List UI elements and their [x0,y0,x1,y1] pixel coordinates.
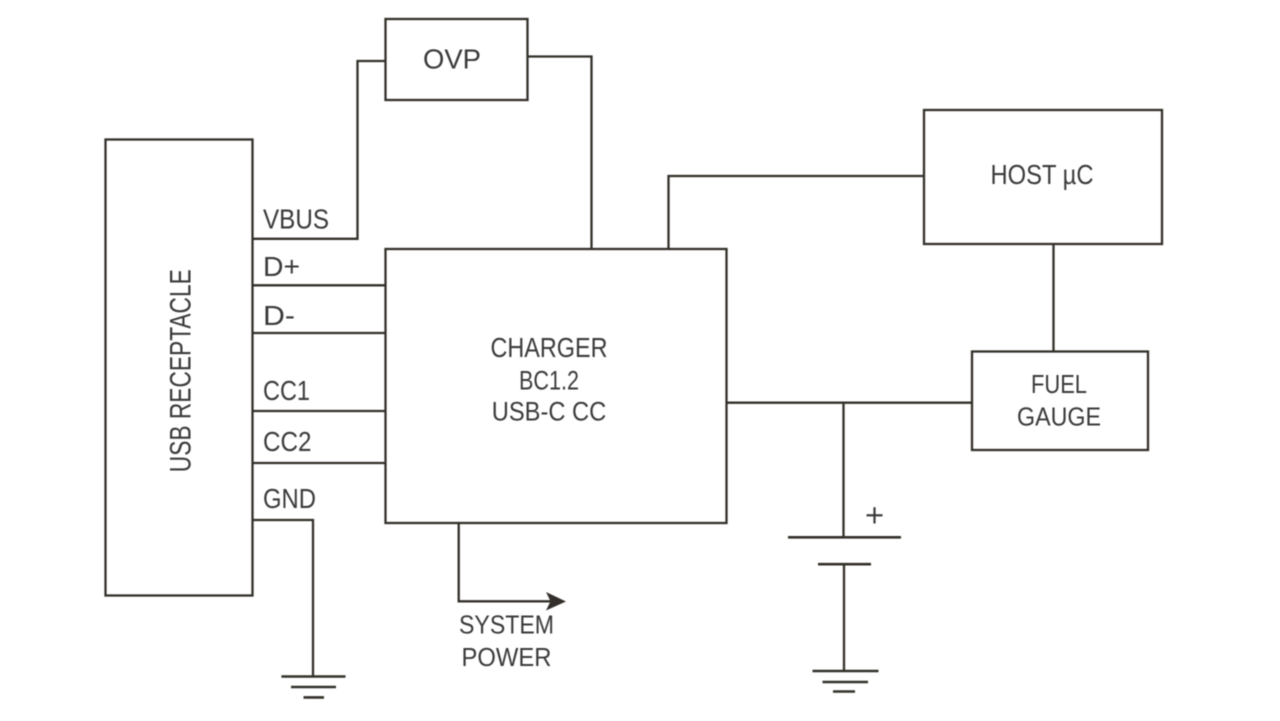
svg-text:GND: GND [263,483,316,514]
battery BT1 plates [788,537,901,564]
block: OVP [386,19,528,100]
wire: OVP output down to charger top [528,57,592,250]
battery plus label [867,507,883,523]
svg-text:POWER: POWER [462,642,552,672]
ground symbol under GND pin [281,677,345,698]
block: HOST uC [924,110,1162,244]
svg-text:D+: D+ [263,251,300,282]
svg-text:GAUGE: GAUGE [1017,402,1101,432]
svg-text:CC1: CC1 [263,375,310,406]
svg-text:D-: D- [263,300,295,331]
svg-text:HOST µC: HOST µC [991,159,1094,190]
block: FUEL GAUGE [972,352,1148,451]
svg-text:CHARGER: CHARGER [491,332,608,363]
svg-text:OVP: OVP [423,44,481,75]
arrowhead: system power [546,592,566,611]
wire GND from receptacle down [253,520,314,677]
wire D- [253,332,386,334]
wire: battery minus to ground [843,564,845,671]
svg-text:SYSTEM: SYSTEM [459,610,554,640]
svg-text:FUEL: FUEL [1031,369,1087,399]
ground symbol under battery [813,671,879,692]
wire: HOST uC bottom to fuel gauge top [1052,244,1054,352]
svg-text:CC2: CC2 [263,426,312,457]
wire: charger top to HOST uC left [669,176,925,249]
wire: battery stem from junction [842,403,844,537]
wire: charger bottom to system power [459,523,560,601]
wire: charger output to fuel gauge [727,402,973,404]
block: USB receptacle [106,140,253,596]
svg-text:VBUS: VBUS [263,204,329,235]
wire CC2 [253,462,386,464]
svg-text:USB RECEPTACLE: USB RECEPTACLE [165,269,198,472]
wire D+ [253,284,386,286]
svg-text:USB-C CC: USB-C CC [492,397,607,427]
wire VBUS: receptacle to OVP input [253,61,386,239]
block: CHARGER BC1.2 USB-C CC [386,249,727,523]
wire CC1 [253,410,386,412]
svg-text:BC1.2: BC1.2 [519,366,579,396]
